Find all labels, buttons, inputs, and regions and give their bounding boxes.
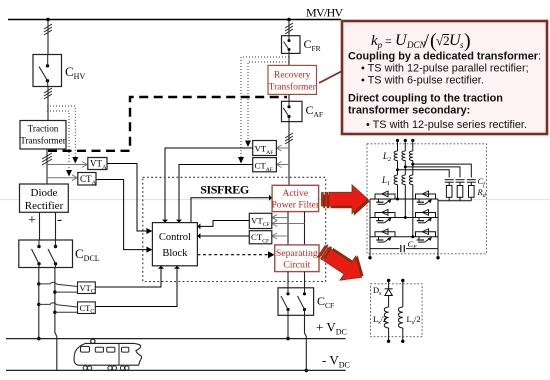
wire CT_C to control block [95, 269, 177, 307]
IGBT Q6 [416, 229, 436, 242]
isolator hatch 2 [44, 88, 52, 99]
IGBT Q5 [375, 229, 395, 242]
transducer VT_AF [253, 141, 277, 157]
circuit Separating Circuit [275, 245, 319, 272]
RC branch right [467, 180, 476, 201]
wire VT_C to control block [95, 269, 161, 287]
transducer VT_CF [249, 213, 271, 228]
isolator hatch 1 [44, 24, 52, 35]
breaker C_HV [33, 55, 62, 87]
node catenary junction [37, 337, 41, 341]
svg-text:Diode: Diode [31, 187, 58, 199]
svg-text:Transformer: Transformer [20, 136, 66, 146]
svg-text:• TS with 12-pulse parallel re: • TS with 12-pulse parallel rectifier; [361, 63, 529, 75]
svg-text:/: / [424, 30, 429, 50]
wire bus to C_HV [47, 20, 49, 55]
breaker C_DCL [19, 240, 73, 268]
wire tap to VT_AF [277, 147, 289, 149]
svg-text:Separating: Separating [276, 248, 318, 259]
svg-text:Circuit: Circuit [283, 260, 310, 271]
wire APF down left [287, 212, 289, 245]
node VT_C tap2 [53, 290, 56, 293]
SISFREG dotted boundary [143, 177, 326, 281]
train body [74, 343, 141, 365]
transducer CT_CF [249, 231, 271, 245]
RC branch mid [456, 180, 465, 201]
svg-text:Recovery: Recovery [274, 71, 311, 81]
separating subcircuit dotted box [371, 284, 423, 337]
wire tap to VT_A [47, 164, 87, 166]
wire APF down right [304, 212, 306, 245]
svg-text:CHV: CHV [65, 64, 85, 81]
wire tap A to RC left [398, 170, 450, 178]
bridge row 2 [370, 217, 438, 219]
wire RC bottom bus [438, 200, 471, 202]
train divider [118, 343, 120, 365]
transducer VT_C [78, 282, 96, 295]
wire MV/HV bus [8, 19, 341, 21]
wire control block to APF [191, 198, 269, 223]
formula k_p [371, 30, 471, 52]
red arrow to separating subcircuit [314, 237, 372, 289]
svg-text:+: + [28, 213, 36, 228]
arrow into CT_A line [66, 170, 72, 177]
wire CT_A to control block [96, 180, 150, 250]
wire C_FR to recovery transformer [288, 53, 290, 66]
phase line A [394, 139, 399, 199]
wire tap to CT_A [47, 177, 77, 179]
IGBT Q2 [416, 191, 436, 204]
wire tap to CT_CF [273, 235, 289, 237]
wire dotted tap primary to VT_A [47, 106, 75, 157]
svg-text:Active: Active [283, 188, 309, 199]
svg-text:L1: L1 [381, 175, 390, 187]
wire dashed control to separating circuit [197, 254, 268, 256]
wire CT_CF to control block [200, 235, 249, 237]
breaker C_CF [278, 288, 314, 316]
arrow into VT_A line [72, 157, 78, 164]
wire CT_AF to control block [179, 165, 253, 220]
wire VT_CF to control block [200, 221, 249, 227]
wire dotted recovery tap to VT_AF [248, 62, 289, 141]
wire tap to CT_AF [277, 164, 289, 166]
svg-text:CCF: CCF [317, 294, 334, 310]
transducer VT_A [88, 158, 107, 172]
wire taps to CT_C [39, 303, 78, 307]
svg-text:Direct coupling to the tractio: Direct coupling to the traction [348, 93, 503, 105]
svg-text:-: - [57, 212, 62, 228]
wire transformer to rectifier [46, 149, 48, 184]
wire bus to C_FR [288, 20, 290, 36]
isolator hatch 4 [285, 23, 293, 34]
breaker C_FR [282, 36, 301, 54]
controller Control Block [152, 223, 197, 266]
wire taps to VT_C [39, 282, 78, 286]
svg-text:Ls/2: Ls/2 [407, 314, 421, 326]
IGBT Q4 [416, 210, 436, 223]
node CT_C tap1 [37, 303, 40, 306]
svg-text:- VDC: - VDC [322, 353, 350, 370]
train windshield [81, 346, 90, 352]
svg-text:Rectifier: Rectifier [25, 200, 64, 212]
svg-text:Coupling by a dedicated transf: Coupling by a dedicated transformer: [348, 51, 541, 63]
wire VT_AF to control block [165, 148, 253, 220]
svg-text:L2: L2 [382, 151, 391, 163]
wire recovery transformer to C_AF [288, 94, 290, 101]
svg-text:Ds: Ds [373, 285, 382, 297]
train wheels [83, 366, 129, 370]
RC branch left [445, 180, 454, 201]
rectifier Diode Rectifier [20, 184, 69, 212]
transformer Recovery Transformer [268, 65, 317, 94]
wire dotted recovery tap to CT_AF [241, 57, 289, 157]
wire rail -VDC [6, 369, 346, 371]
callout line to annotation [319, 71, 343, 84]
wire tap B to RC mid [405, 167, 460, 178]
annotation box [342, 21, 547, 134]
red arrow to APF subcircuit [322, 185, 370, 216]
wire tap C to RC right [413, 164, 472, 177]
svg-text:CFR: CFR [304, 37, 321, 53]
wire VT_A to control block [107, 164, 150, 232]
svg-text:MV/HV: MV/HV [306, 6, 344, 20]
svg-text:CAF: CAF [306, 103, 324, 119]
transducer CT_A [78, 173, 97, 187]
svg-text:Power Filter: Power Filter [271, 200, 320, 211]
svg-text:=: = [385, 34, 392, 48]
node VT_C tap1 [37, 282, 40, 285]
transducer CT_AF [253, 158, 277, 173]
wire tap to VT_CF b [273, 223, 305, 225]
wire separating to C_CF right [304, 272, 306, 288]
wire C_CF to +VDC [287, 315, 289, 338]
svg-text:+ VDC: + VDC [316, 320, 347, 337]
breaker C_AF [282, 101, 303, 121]
phase line B [402, 139, 407, 218]
svg-text:• TS with 12-pulse series rect: • TS with 12-pulse series rectifier. [366, 119, 527, 131]
svg-text:SISFREG: SISFREG [200, 183, 249, 197]
svg-text:Traction: Traction [28, 124, 59, 134]
dashed loop direct coupling [48, 97, 287, 151]
node bus-left junction [46, 18, 50, 22]
train window 1 [95, 347, 103, 352]
svg-text:Rd: Rd [477, 187, 487, 199]
svg-text:• TS with 6-pulse rectifier.: • TS with 6-pulse rectifier. [361, 74, 484, 86]
APF subcircuit dotted box [367, 144, 486, 254]
wire catenary +VDC [6, 338, 346, 340]
svg-text:CF: CF [408, 239, 418, 251]
wire C_CF to -VDC [305, 315, 307, 370]
sep branch right [398, 279, 404, 343]
isolator hatch 5 [285, 133, 293, 144]
svg-text:transformer secondary:: transformer secondary: [348, 105, 470, 117]
wire separating to C_CF left [287, 272, 289, 288]
svg-text:CDCL: CDCL [75, 246, 100, 263]
isolator hatch 3 [42, 153, 52, 165]
wire dotted tap primary to CT_A [47, 111, 69, 170]
train pantograph [91, 339, 95, 343]
bridge row 1 [370, 198, 438, 200]
train window 3 [122, 347, 129, 352]
wire C_HV to transformer [47, 87, 49, 121]
svg-text:Block: Block [162, 248, 188, 259]
node bus-right junction [287, 18, 291, 22]
wire C_DCL+ down to catenary [38, 268, 40, 339]
filter Active Power Filter [271, 185, 320, 211]
phase line C [409, 139, 414, 237]
wire rectifier- to C_DCL [55, 212, 57, 240]
IGBT Q3 [375, 210, 395, 223]
seam artifact line [0, 199, 550, 201]
svg-text:Transformer: Transformer [269, 82, 317, 93]
annotation text [348, 51, 541, 132]
bridge bottom rail and C_F [370, 245, 438, 258]
bridge right bus [437, 199, 439, 249]
bridge left bus [369, 199, 371, 249]
svg-text:): ) [464, 30, 471, 52]
node CT_C tap2 [53, 311, 56, 314]
wire tap to VT_CF a [273, 217, 289, 219]
wire C_DCL- down to rail [55, 268, 57, 371]
train window 2 [107, 347, 115, 352]
bridge row 3 [370, 236, 438, 238]
transducer CT_C [78, 302, 96, 315]
svg-text:√2: √2 [436, 33, 450, 48]
wire rectifier+ to C_DCL [39, 212, 41, 240]
IGBT Q1 [375, 191, 395, 204]
transformer Traction Transformer [20, 121, 66, 150]
sep branch left with diode Ds [384, 279, 392, 343]
wire C_AF to APF [288, 122, 290, 186]
svg-text:Control: Control [159, 232, 191, 243]
